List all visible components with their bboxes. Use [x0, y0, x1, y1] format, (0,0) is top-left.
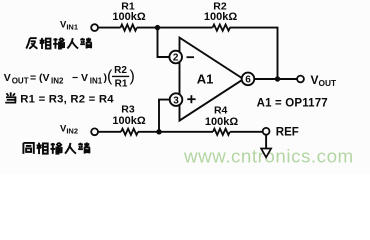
terminal VOUT — [297, 76, 304, 83]
note 当 R1 = R3, R2 = R4 — [5, 92, 114, 105]
terminal VIN2 — [91, 128, 98, 135]
wire R2 right then down to output node — [230, 28, 278, 79]
wire R1 to node A — [137, 27, 158, 29]
svg-text:2: 2 — [173, 53, 179, 64]
svg-text:3: 3 — [173, 95, 179, 106]
resistor R2 — [213, 25, 230, 31]
wire node A to R2 — [158, 27, 213, 29]
svg-text:A1 = OP1177: A1 = OP1177 — [257, 97, 328, 109]
svg-text:V: V — [4, 72, 11, 84]
svg-text:R3: R3 — [121, 103, 135, 115]
op-amp A1 body — [180, 38, 244, 121]
svg-text:R4: R4 — [214, 104, 228, 116]
svg-text:R2: R2 — [114, 65, 127, 76]
label 同相输入端 (non-inverting input) — [23, 142, 89, 154]
resistor R4 — [213, 129, 230, 135]
svg-text:IN2: IN2 — [51, 76, 64, 85]
terminal REF — [263, 128, 270, 135]
svg-text:= (V: = (V — [30, 72, 50, 84]
wire node B up and into pin 3 — [159, 100, 170, 132]
svg-text:100kΩ: 100kΩ — [112, 11, 145, 23]
svg-text:100kΩ: 100kΩ — [205, 116, 238, 128]
node A junction dot — [155, 25, 160, 30]
ground — [261, 135, 271, 158]
svg-text:100kΩ: 100kΩ — [112, 115, 145, 127]
wire VIN2 to R3 — [98, 131, 121, 133]
formula VOUT = (VIN2 - VIN1)(R2/R1) — [4, 65, 135, 90]
svg-text:− V: − V — [72, 72, 88, 84]
pin 3 — [170, 93, 183, 106]
svg-text:100kΩ: 100kΩ — [204, 11, 237, 23]
wire node B to R4 — [159, 131, 213, 133]
resistor R1 — [121, 25, 137, 31]
svg-text:6: 6 — [245, 75, 251, 86]
wire VIN1 to R1 — [98, 27, 121, 29]
resistor R3 — [121, 129, 138, 135]
wire R3 to node B — [138, 131, 159, 133]
svg-text:REF: REF — [276, 126, 299, 138]
wire pin 6 to VOUT terminal — [254, 78, 297, 80]
node output junction dot — [275, 76, 280, 81]
wire R4 to REF terminal — [230, 131, 263, 133]
pin 2 — [169, 51, 182, 64]
terminal VIN1 — [91, 24, 98, 31]
label 反相输入端 (inverting input) — [26, 38, 91, 49]
pin 6 — [242, 73, 255, 86]
svg-text:A1: A1 — [197, 71, 214, 86]
wire node A down and into pin 2 — [158, 28, 171, 57]
svg-text:): ) — [130, 68, 135, 85]
svg-text:OUT: OUT — [12, 76, 29, 85]
svg-text:R1: R1 — [115, 79, 128, 90]
svg-text:IN1: IN1 — [90, 76, 103, 85]
node B junction dot — [156, 129, 161, 134]
svg-text:R1 = R3, R2 = R4: R1 = R3, R2 = R4 — [20, 93, 114, 105]
